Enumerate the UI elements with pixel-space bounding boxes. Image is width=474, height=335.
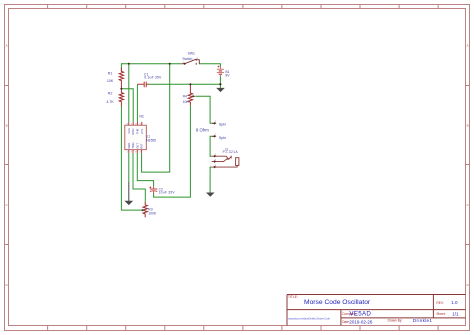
resistor R1	[119, 68, 123, 89]
capacitor C2 polarized	[150, 186, 158, 193]
jack pin 2 switch contact	[212, 158, 228, 161]
svg-text:10K: 10K	[183, 100, 190, 104]
node junction battery minus	[219, 83, 221, 85]
jack pin 3 sleeve	[212, 166, 238, 168]
svg-text:THR: THR	[135, 129, 139, 135]
connector pin Spkr 1	[212, 121, 227, 127]
ground (jack)	[206, 193, 215, 197]
jack sleeve barrel	[236, 158, 239, 166]
op-amp U1 555 timer	[125, 122, 147, 154]
svg-text:SW1: SW1	[188, 51, 195, 55]
svg-text:DISC: DISC	[131, 128, 135, 134]
connector J1 PJ-321A jack	[212, 148, 239, 169]
svg-text:Spkr: Spkr	[219, 136, 227, 140]
svg-text:4.7K: 4.7K	[106, 100, 114, 104]
svg-text:Morse Code Oscillator: Morse Code Oscillator	[304, 299, 371, 306]
jack pin 1 tip contact	[212, 156, 232, 159]
svg-text:1/1: 1/1	[452, 311, 459, 316]
svg-text:R2: R2	[108, 91, 113, 95]
ground (battery)	[216, 88, 225, 92]
potentiometer R3	[143, 202, 147, 218]
svg-text:TRIG: TRIG	[131, 142, 135, 148]
svg-text:A: A	[467, 44, 469, 48]
connector pin Spkr 2	[212, 134, 227, 140]
svg-text:REV:: REV:	[436, 301, 443, 305]
resistor R2	[119, 89, 123, 106]
node junction RST on top rail	[169, 63, 171, 65]
svg-text:PJ-321A: PJ-321A	[223, 150, 239, 154]
wire speaker 2 to jack tip	[210, 136, 212, 156]
node junction R4 top	[189, 83, 191, 85]
svg-text:A: A	[6, 44, 8, 48]
wire left rail R2 down to R3 wiper	[121, 106, 141, 210]
wire VCC drop	[128, 64, 130, 122]
svg-text:B: B	[467, 124, 469, 128]
node junction VCC on top rail	[128, 63, 130, 65]
wire jack sleeve to ground	[210, 167, 212, 193]
svg-text:R1: R1	[108, 71, 113, 75]
svg-text:2019-02-26: 2019-02-26	[349, 319, 373, 324]
svg-text:Switch: Switch	[182, 57, 192, 61]
battery B1	[217, 67, 224, 77]
R4 wiper arrow	[193, 95, 196, 97]
wire top rail	[121, 64, 181, 72]
svg-text:VE5AD: VE5AD	[349, 310, 371, 317]
svg-text:NC: NC	[139, 114, 144, 118]
wire C1 right to battery minus rail	[148, 83, 220, 85]
pin stubs bottom	[129, 150, 142, 153]
svg-text:easyeda.com/editor/Drinkle1.Mo: easyeda.com/editor/Drinkle1.Morse-Code	[288, 317, 330, 321]
wire rail right of switch to battery	[199, 64, 220, 67]
wire RST loop from top rail	[142, 64, 170, 172]
svg-text:VCC: VCC	[127, 128, 131, 134]
svg-text:TITLE:: TITLE:	[288, 295, 298, 299]
wire DISC to R1R2 junction	[121, 89, 133, 122]
pin names bottom	[127, 142, 144, 148]
svg-text:Spkr: Spkr	[219, 123, 227, 127]
pin names top	[127, 128, 144, 135]
node junction R1-R2	[120, 88, 122, 90]
switch SW1	[182, 59, 200, 65]
svg-text:Drawn By:: Drawn By:	[388, 319, 403, 323]
svg-text:0.1uF 35V: 0.1uF 35V	[144, 76, 162, 80]
pin stubs top	[129, 122, 142, 125]
svg-text:100K: 100K	[148, 212, 157, 216]
svg-text:R4: R4	[183, 94, 187, 98]
wire battery minus to ground	[219, 76, 221, 88]
svg-text:10K: 10K	[107, 79, 114, 83]
wire THR drop to C1	[136, 84, 138, 122]
wire TRIG to R3 top	[133, 153, 145, 202]
svg-text:8 Ohm: 8 Ohm	[196, 128, 209, 133]
ground (555 GND)	[124, 182, 133, 205]
svg-text:10uF 35V: 10uF 35V	[159, 191, 176, 195]
svg-text:B: B	[6, 124, 8, 128]
title block	[287, 295, 466, 326]
svg-text:OUT: OUT	[135, 143, 139, 149]
svg-text:Sheet:: Sheet:	[436, 312, 445, 316]
label U1 NE555	[146, 135, 156, 143]
wire R4 wiper to speaker 1	[195, 96, 212, 123]
svg-text:RST: RST	[140, 143, 144, 149]
svg-text:1.0: 1.0	[451, 300, 458, 305]
pin numbers	[127, 124, 142, 154]
capacitor C1	[137, 82, 148, 88]
potentiometer R4	[188, 84, 192, 105]
svg-text:Drinkle1: Drinkle1	[413, 318, 432, 323]
R3 wiper arrow	[141, 209, 144, 211]
row labels	[6, 44, 470, 288]
wire OUT to C2	[137, 153, 153, 186]
wire 555 GND down	[128, 153, 130, 182]
svg-text:9V: 9V	[225, 73, 230, 77]
svg-text:CTL: CTL	[140, 128, 144, 134]
svg-text:GND: GND	[127, 143, 131, 149]
wire C2 bottom to R4 bottom	[154, 105, 191, 197]
svg-text:NE555: NE555	[146, 139, 156, 143]
